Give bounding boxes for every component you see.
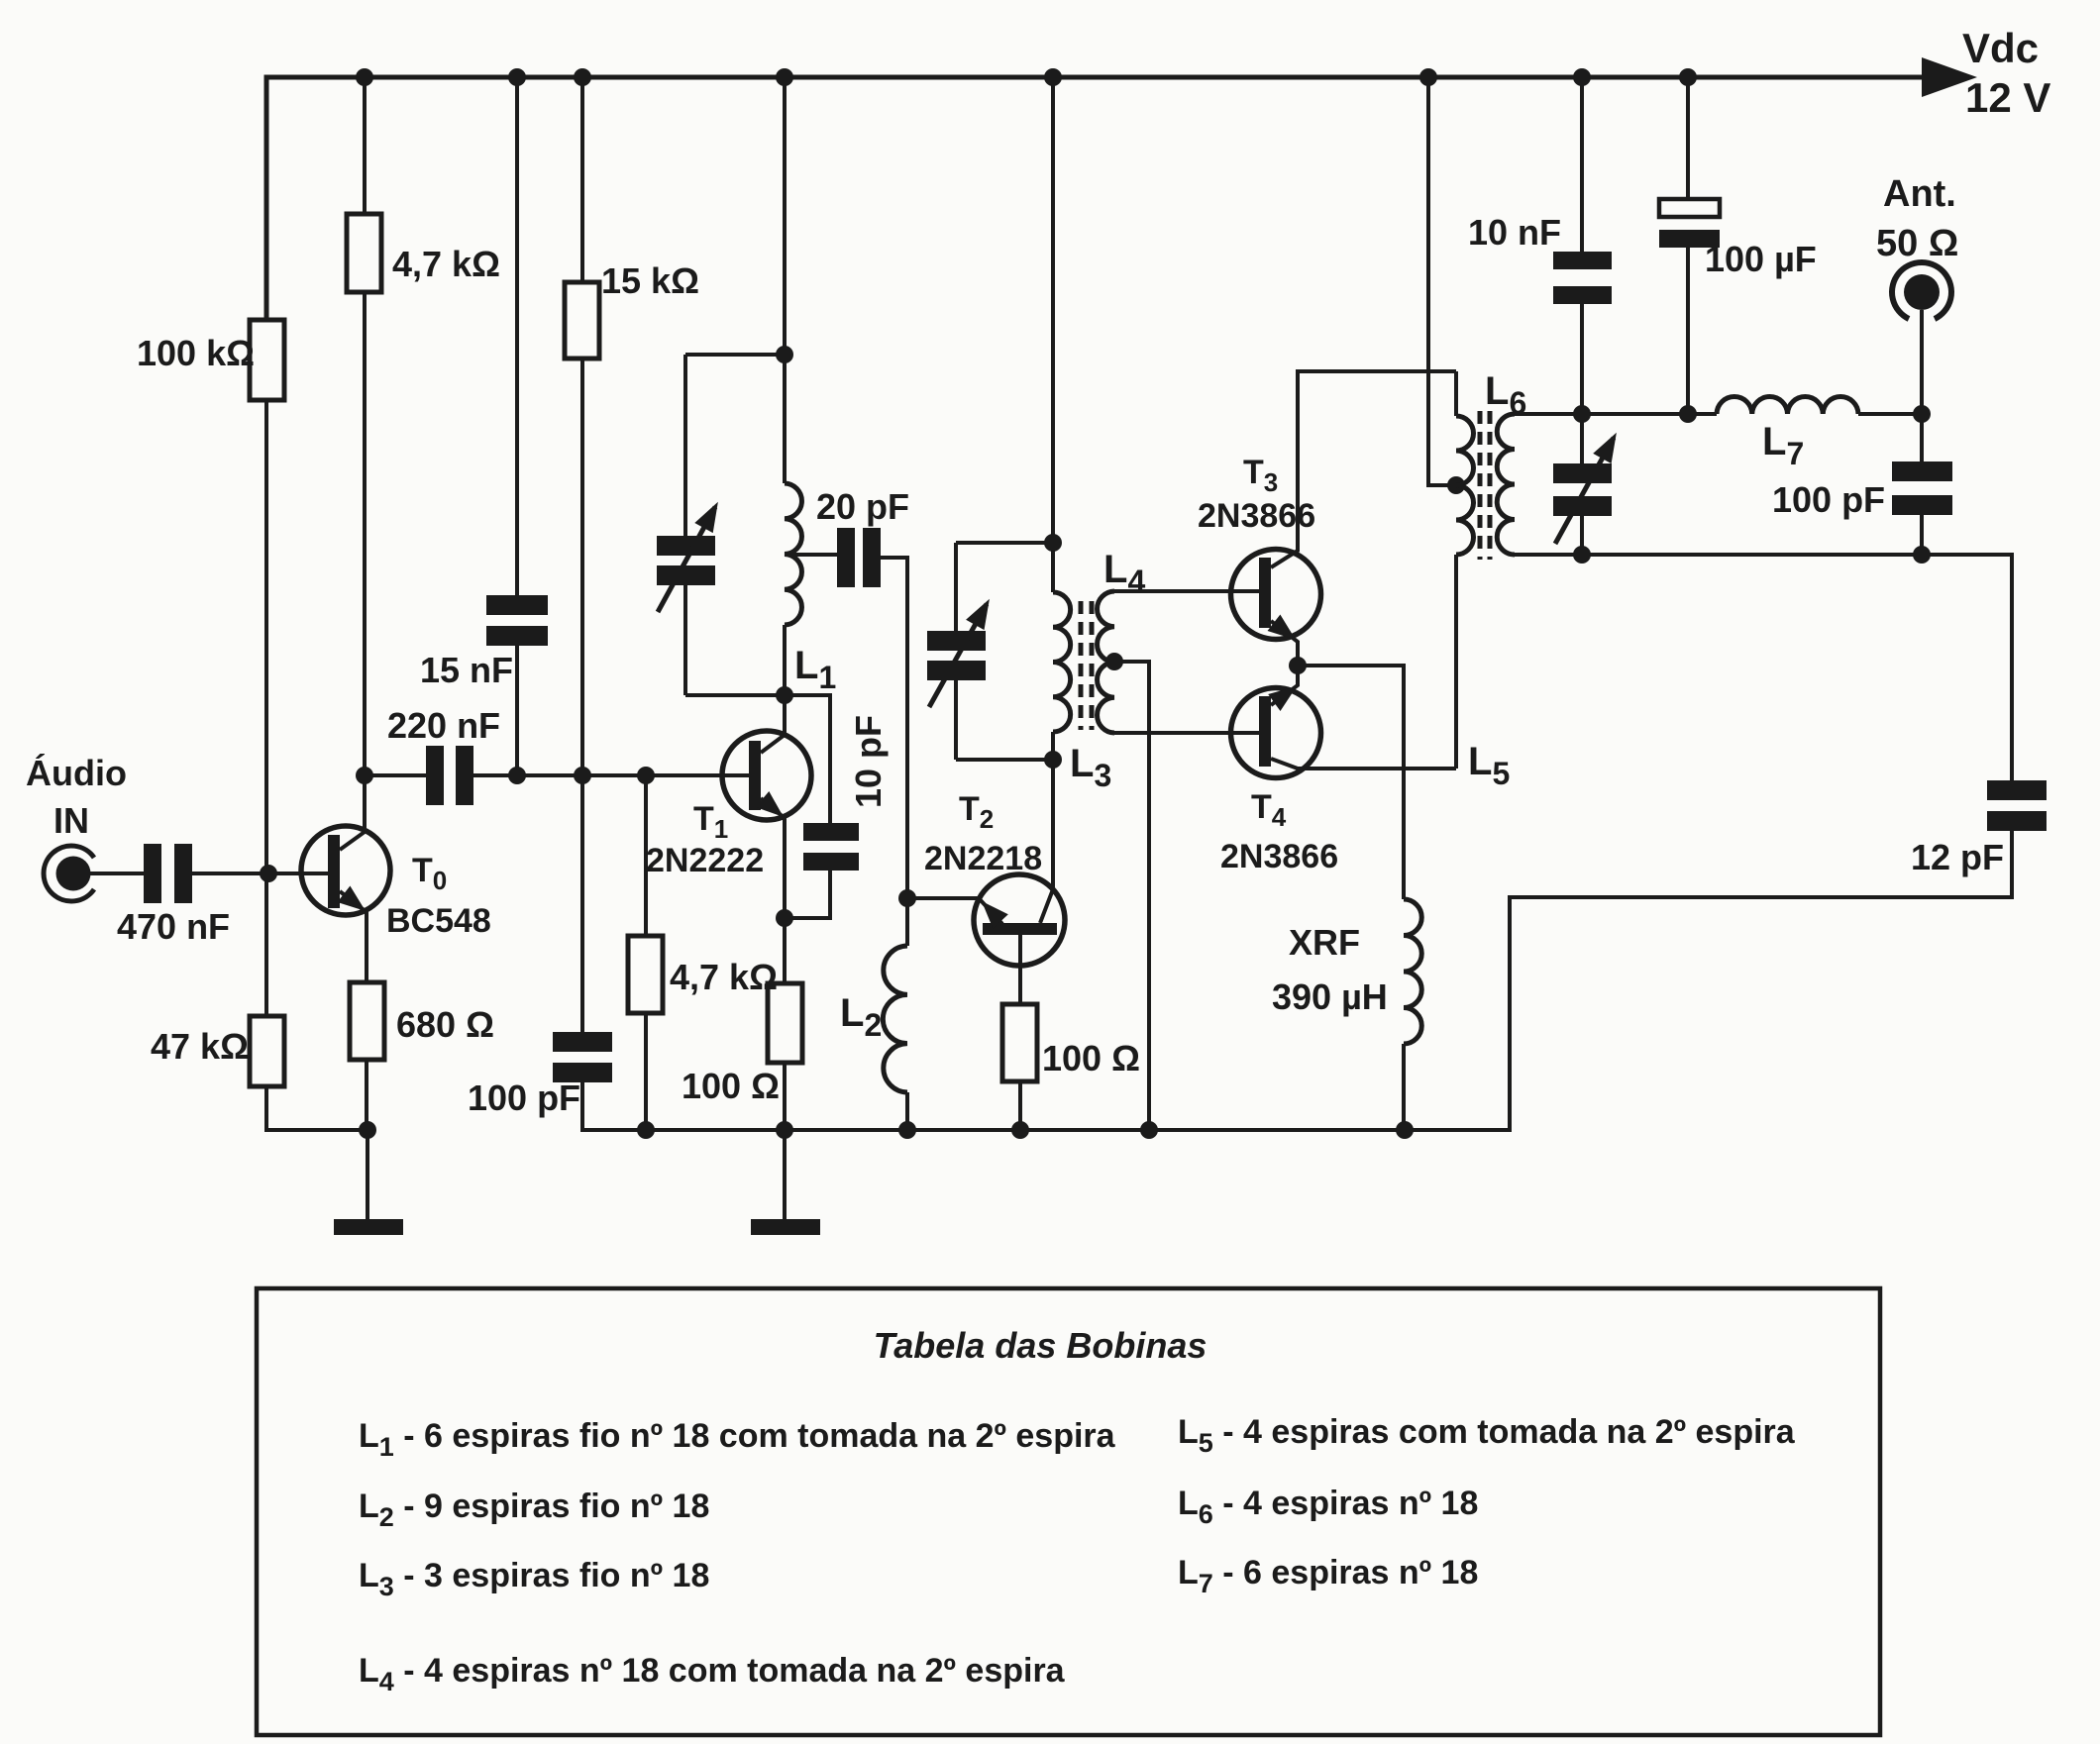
inductor L2 [883,946,907,1092]
svg-text:2N2218: 2N2218 [924,840,1042,877]
wire C 15nF to base node [515,646,519,775]
resistor 100 Ohm (T1 emitter) [768,983,802,1063]
wire rail to L3 [1051,77,1055,543]
transistor T2 circle [974,874,1065,966]
wire antenna node to C100pF [1920,414,1924,462]
wire C 12pF to ground bus [1405,831,2012,1130]
wire 47k to T0 emitter node [266,1086,367,1130]
inductor XRF 390uH [1404,899,1421,1044]
transistor T3 collector lead [1271,371,1456,567]
transistor T0 collector lead [340,775,365,850]
antenna jack [1892,262,1951,319]
Vdc arrowhead [1922,57,1977,97]
wire rail to C 10nF [1580,77,1584,252]
capacitor 20 pF [837,528,855,587]
coil table frame [257,1288,1880,1735]
inductor L5 [1456,416,1474,555]
wire rail to C 15nF [515,77,519,595]
inductor L6 [1497,414,1515,555]
capacitor 100 pF (output) [1892,462,1952,481]
svg-text:10 nF: 10 nF [1468,212,1561,253]
transistor T3 emitter arrow [1268,615,1297,641]
capacitor 470 nF [144,844,161,903]
wire rail to R4,7k [363,77,367,214]
svg-text:20 pF: 20 pF [816,486,909,527]
svg-text:4,7 kΩ: 4,7 kΩ [392,244,500,284]
wire trimmer3 bottom [1580,516,1584,555]
wire trimmer bottom [683,585,687,695]
transistor T2 collector lead [1040,761,1053,923]
junction dot T0 collector node [356,767,373,784]
wire C 470nF to T0 base [192,872,328,875]
wire tank2 bottom link [956,758,1053,762]
wire T1 base node line [473,773,749,777]
transistor T3 circle [1231,550,1321,640]
ground symbol (main bus) [751,1219,820,1235]
wire emitter node to T2 [907,896,979,900]
transistor T3 base bar [1259,558,1271,628]
wire bus to ground 2 [783,1130,787,1219]
junction dot node/R15k branch [574,767,591,784]
junction dot node/R4,7k branch [637,767,655,784]
resistor 100 Ohm (T2 base) [1002,1004,1037,1081]
wire collector node to C10pF [785,695,830,823]
junction dot rail/R 15k [574,68,591,86]
wire L6 top to output node [1515,412,1717,416]
junction dot L1 top/trimmer [776,346,793,363]
svg-text:2N2222: 2N2222 [646,842,764,879]
transistor T1 collector lead [761,695,785,753]
svg-text:680 Ω: 680 Ω [396,1004,494,1045]
capacitor 12 pF [1987,780,2047,800]
svg-text:12 V: 12 V [1965,74,2050,121]
svg-text:100 µF: 100 µF [1705,239,1817,279]
wire tank top link [685,353,785,357]
wire C10pF to emitter node [785,871,830,918]
junction dot bus/R100 T1 ground [776,1121,793,1139]
wire trimmer3 top [1580,414,1584,463]
svg-text:Ant.: Ant. [1883,173,1956,215]
transformer core dashes L3/L4 [1081,601,1092,730]
junction dot bus/R4,7k T1 [637,1121,655,1139]
ground symbol (T0 stage) [334,1219,403,1235]
wire antenna jack down [1920,310,1924,414]
wire emitters to XRF [1298,666,1404,899]
capacitor 15 nF [486,595,548,615]
junction dot L4 tap [1105,653,1123,670]
wire ground bus [585,1128,1510,1132]
junction dot output tank bottom [1913,546,1931,564]
transistor T0 base bar [328,835,340,908]
trimmer capacitor (oscillator) [657,536,715,556]
svg-text:470 nF: 470 nF [117,906,230,947]
wire L1 tap to C 20pF [785,553,837,557]
junction dot node/C15nF [508,767,526,784]
wire audio node to 47k [264,873,268,1016]
wire trimmer2 bottom [954,680,958,760]
capacitor 10 pF [803,823,859,841]
junction dot T3/T4 emitters [1289,657,1307,674]
wire L4 top to T3 base [1114,589,1259,593]
junction dot L3 bottom [1044,751,1062,769]
junction dot trimmer3 bottom [1573,546,1591,564]
wire tank bottom link [685,693,785,697]
transistor T1 emitter arrow [756,791,784,817]
wire to ground 1 [366,1130,369,1219]
wire L4 tap to ground bus [1114,662,1149,1130]
wire C100pF to bottom rail [1920,515,1924,555]
wire C 10nF to output node [1580,304,1584,414]
inductor L4 [1098,591,1114,733]
wire rail to C 100uF [1686,77,1690,199]
svg-text:100 Ω: 100 Ω [682,1066,780,1106]
trimmer capacitor (output tank) [1553,463,1612,483]
svg-text:Tabela das Bobinas: Tabela das Bobinas [874,1325,1207,1366]
transistor T4 emitter arrow [1268,686,1297,711]
svg-text:390 µH: 390 µH [1272,976,1388,1017]
wire T1 emitter to R100 [783,918,787,983]
transistor T4 circle [1231,688,1321,778]
wire L3 bottom lead [1051,732,1055,760]
wire 100k to audio node [264,400,268,873]
wire Vdc supply rail [266,77,1922,320]
wire L6 bottom rail [1515,553,1922,557]
transformer core dashes L5/L6 [1480,411,1490,560]
svg-text:2N3866: 2N3866 [1220,838,1338,875]
wire L3 top lead [1051,543,1055,592]
svg-text:100 pF: 100 pF [468,1077,580,1118]
wire rail to R 15k [580,77,584,282]
junction dot T1 collector/L1 [776,686,793,704]
svg-text:100 pF: 100 pF [1772,479,1885,520]
transistor T2 emitter arrow [982,901,1008,929]
wire L2 to ground bus [905,1092,909,1130]
resistor 4,7 kOhm (T0 load) [347,214,381,292]
wire R4,7k to collector node [363,292,367,775]
svg-text:IN: IN [53,800,89,841]
wire C 20pF to T2 emitter [881,558,907,898]
junction dot bus/XRF [1396,1121,1414,1139]
svg-text:4,7 kΩ: 4,7 kΩ [670,957,778,997]
transistor T1 circle [722,731,811,820]
junction dot trimmer3 top [1573,405,1591,423]
inductor L7 [1717,397,1858,414]
transistor T4 emitter lead [1271,666,1298,705]
junction dot antenna node [1913,405,1931,423]
junction dot rail/L3 [1044,68,1062,86]
junction dot T2 emitter node [898,889,916,907]
resistor 4,7 kOhm (T1 bias) [628,936,663,1013]
junction dot rail/R 4,7k [356,68,373,86]
svg-text:XRF: XRF [1289,922,1360,963]
wire R 15k down to C 100pF [580,359,584,1032]
wire trimmer top [683,355,687,536]
resistor 680 Ohm [350,982,384,1060]
svg-text:220 nF: 220 nF [387,705,500,746]
junction dot rail/C 10nF [1573,68,1591,86]
junction dot bus/L4 tap [1140,1121,1158,1139]
wire rail to L5 tap [1428,77,1456,485]
transistor T2 base lead [1018,935,1022,1004]
transistor T1 base bar [749,741,761,810]
wire emitter node to L2 [905,898,909,946]
svg-text:Vdc: Vdc [1962,25,2039,71]
resistor 15 kOhm [565,282,599,359]
capacitor 10 nF [1553,252,1612,269]
transistor T4 collector lead [1271,759,1456,769]
wire collector node to C 220nF [365,773,426,777]
junction dot L3 top [1044,534,1062,552]
svg-text:10 pF: 10 pF [848,715,889,808]
junction dot bus/L2 [898,1121,916,1139]
wire base node to R4,7k (T1) [644,775,648,936]
svg-text:15 kΩ: 15 kΩ [601,260,699,301]
svg-text:15 nF: 15 nF [420,650,513,690]
transistor T3 emitter lead [1271,621,1298,666]
wire XRF to ground bus [1402,1044,1406,1130]
transistor T0 emitter arrow [338,886,367,912]
svg-text:50 Ω: 50 Ω [1876,223,1958,264]
wire L1 bottom [783,625,787,695]
capacitor 100 pF (T1 stage) [553,1032,612,1052]
wire tank bottom to C 12pF [1922,555,2012,780]
wire rail to L1 top [783,77,787,483]
resistor 100 kOhm [250,320,284,400]
wire L4 bottom to T4 base [1114,731,1259,735]
wire R100 (T2) to ground bus [1018,1081,1022,1130]
transistor T2 emitter lead [979,898,1002,924]
wire jack to C 470nF [89,872,144,875]
junction dot audio-in node [260,865,277,882]
transistor T2 base bar [983,923,1057,935]
wire 680R to ground node [365,1060,368,1130]
svg-text:100 Ω: 100 Ω [1042,1038,1140,1078]
junction dot rail/L5 tap [1419,68,1437,86]
capacitor 220 nF [426,746,444,805]
svg-text:Áudio: Áudio [26,753,127,793]
wire tank2 top link [956,541,1053,545]
svg-text:BC548: BC548 [386,902,491,940]
junction dot rail/L1 [776,68,793,86]
inductor L3 [1053,592,1071,732]
capacitor 100 uF electrolytic [1659,199,1720,217]
audio input jack [44,846,94,901]
wire trimmer2 top [954,543,958,631]
transistor T4 base bar [1259,696,1271,767]
junction dot rail/C 100uF [1679,68,1697,86]
svg-text:47 kΩ: 47 kΩ [151,1026,249,1067]
junction dot L5 tap [1447,476,1465,494]
wire R100 to ground bus [783,1063,787,1130]
wire R4,7k (T1) to ground bus [644,1013,648,1130]
wire L5 top lead [1454,371,1458,416]
junction dot bus/R100 T2 [1011,1121,1029,1139]
svg-text:2N3866: 2N3866 [1198,497,1315,535]
junction dot T1 emitter/C10pF [776,909,793,927]
wire C 100pF to ground bus [582,1082,585,1130]
junction dot C100uF bottom node [1679,405,1697,423]
label 10 pF [848,715,889,808]
transistor T1 emitter lead [761,798,785,918]
inductor L1 [785,483,801,625]
svg-text:100 kΩ: 100 kΩ [137,333,255,373]
trimmer capacitor (T2 tank) [927,631,986,651]
wire L7 to antenna node [1858,412,1922,416]
junction dot rail/C 15nF [508,68,526,86]
transistor T0 emitter lead [340,891,367,982]
junction dot T0 emitter/ground [359,1121,376,1139]
transistor T0 circle [301,826,390,915]
wire L5 bottom lead [1454,555,1458,769]
resistor 47 kOhm [250,1016,284,1086]
wire C 100uF to output node [1686,248,1690,414]
svg-text:12 pF: 12 pF [1911,837,2004,877]
